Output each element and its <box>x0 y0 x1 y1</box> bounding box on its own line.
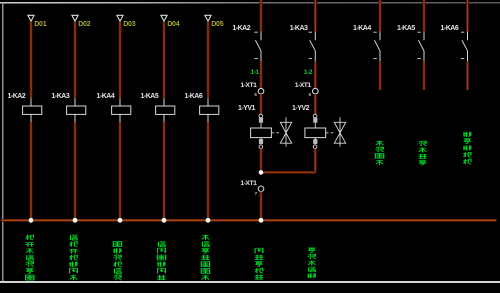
terminal label 1-XT1 (upper) <box>240 82 257 89</box>
terminal label 1-XT1 (branch2) <box>295 82 312 89</box>
green label feedback 2 <box>418 141 426 165</box>
border frame bottom line <box>0 281 500 283</box>
green label under coil 4 <box>157 242 165 280</box>
wire to bus from XT1:7 <box>260 192 263 220</box>
label coil 1-KA3 <box>52 93 70 100</box>
svg-text:1-KA4: 1-KA4 <box>353 25 371 32</box>
junction dot at bus x=31 <box>29 218 34 223</box>
node label 1-1 <box>250 69 259 76</box>
pin number 5 <box>254 92 257 97</box>
wire below YV1 <box>260 149 263 173</box>
green label feedback 1 <box>375 141 383 165</box>
wire D02 vertical upper <box>74 22 77 99</box>
border frame top line <box>0 2 500 4</box>
label D01 <box>34 21 47 28</box>
wire below contact 1-KA5 <box>423 61 426 90</box>
dashed actuator link YV1 <box>272 132 281 134</box>
label contact 1-KA5 <box>397 25 415 32</box>
junction dot at bus x=164 <box>162 218 167 223</box>
svg-text:D03: D03 <box>123 21 136 28</box>
svg-text:D01: D01 <box>34 21 47 28</box>
contact 1-KA3 (NO) <box>309 32 316 62</box>
PLC output arrow D01 <box>28 15 34 21</box>
svg-text:5: 5 <box>254 92 257 97</box>
wire D03 vertical upper <box>119 22 122 99</box>
green label under coil 1 <box>26 235 34 280</box>
svg-text:D04: D04 <box>167 21 180 28</box>
terminal 1-XT1:7 <box>258 186 264 192</box>
wire D01 vertical lower <box>30 122 33 220</box>
PLC output arrow D04 <box>161 15 167 21</box>
valve symbol V1 <box>280 117 291 146</box>
border frame left line <box>2 2 4 282</box>
wire below YV2 <box>314 149 317 173</box>
green label feedback 3 <box>463 132 471 165</box>
wire D04 vertical upper <box>163 22 166 99</box>
label contact 1-KA3 <box>290 25 308 32</box>
label coil 1-KA2 <box>8 93 26 100</box>
label D05 <box>211 21 224 28</box>
label coil 1-KA5 <box>141 93 159 100</box>
svg-text:1-2: 1-2 <box>304 69 313 76</box>
wire D04 vertical lower <box>163 122 166 220</box>
wire YV2 return horizontal <box>261 171 315 174</box>
PLC output arrow D05 <box>205 15 211 21</box>
label solenoid 1-YV2 <box>292 105 310 112</box>
contact 1-KA2 (NO) <box>254 32 261 62</box>
PLC output arrow D02 <box>72 15 78 21</box>
relay coil 1-KA6 <box>200 99 219 123</box>
label D02 <box>78 21 91 28</box>
wire D02 vertical lower <box>74 122 77 220</box>
label contact 1-KA6 <box>441 25 459 32</box>
valve symbol V2 <box>334 117 345 146</box>
terminal 1-XT1:6 <box>313 88 319 94</box>
green label under coil 2 <box>69 235 77 280</box>
terminal 1-XT1:5 <box>258 88 264 94</box>
svg-text:1-XT1: 1-XT1 <box>240 82 257 89</box>
wire D05 vertical upper <box>207 22 210 99</box>
bus wire horizontal <box>1 219 497 222</box>
svg-text:1-KA2: 1-KA2 <box>232 25 250 32</box>
wire to contact 1-KA6 <box>466 0 469 32</box>
svg-text:1-YV2: 1-YV2 <box>292 105 310 112</box>
svg-text:1-KA4: 1-KA4 <box>97 93 115 100</box>
green label under YV branch <box>255 248 263 280</box>
label coil 1-KA6 <box>185 93 203 100</box>
svg-text:1-KA6: 1-KA6 <box>441 25 459 32</box>
green label under coil 3 <box>113 242 121 281</box>
wire below contact 1-KA2 <box>260 61 263 88</box>
wire D03 vertical lower <box>119 122 122 220</box>
svg-text:1-YV1: 1-YV1 <box>238 105 256 112</box>
svg-text:1-KA2: 1-KA2 <box>8 93 26 100</box>
svg-text:1-KA6: 1-KA6 <box>185 93 203 100</box>
wire D05 vertical lower <box>207 122 210 220</box>
solenoid coil 1-YV2 <box>305 114 326 148</box>
junction dot at bus x=208 <box>206 218 211 223</box>
green label under coil 5 <box>201 235 209 280</box>
contact 1-KA6 (NO) <box>461 32 468 62</box>
label contact 1-KA2 <box>232 25 250 32</box>
contact 1-KA4 (NO) <box>373 32 380 62</box>
wire to contact 1-KA2 <box>260 0 263 32</box>
relay coil 1-KA3 <box>67 99 86 123</box>
contact 1-KA5 (NO) <box>417 32 424 62</box>
green label under branch 2 <box>308 248 316 278</box>
wire to contact 1-KA5 <box>423 0 426 32</box>
relay coil 1-KA2 <box>23 99 42 123</box>
PLC output arrow D03 <box>117 15 123 21</box>
wire to contact 1-KA4 <box>379 0 382 32</box>
svg-text:1-1: 1-1 <box>250 69 259 76</box>
wire XT1 to YV1 <box>260 94 263 114</box>
junction dot YV return <box>259 170 264 175</box>
label D04 <box>167 21 180 28</box>
relay coil 1-KA5 <box>156 99 175 123</box>
relay coil 1-KA4 <box>112 99 131 123</box>
pin number 7 <box>255 191 258 196</box>
svg-text:1-KA5: 1-KA5 <box>141 93 159 100</box>
pin number 6 <box>309 92 312 97</box>
svg-text:6: 6 <box>309 92 312 97</box>
wire to contact 1-KA3 <box>314 0 317 32</box>
wire below contact 1-KA4 <box>379 61 382 90</box>
label contact 1-KA4 <box>353 25 371 32</box>
junction dot at bus x=120 <box>118 218 123 223</box>
wire below contact 1-KA3 <box>314 61 317 88</box>
label solenoid 1-YV1 <box>238 105 256 112</box>
label D03 <box>123 21 136 28</box>
svg-text:1-XT1: 1-XT1 <box>240 180 257 187</box>
svg-text:D02: D02 <box>78 21 91 28</box>
wire below contact 1-KA6 <box>466 61 469 90</box>
label coil 1-KA4 <box>97 93 115 100</box>
svg-text:7: 7 <box>255 191 258 196</box>
solenoid coil 1-YV1 <box>251 114 272 148</box>
node label 1-2 <box>304 69 313 76</box>
junction dot at bus x=75 <box>73 218 78 223</box>
junction dot at bus x=261 <box>259 218 264 223</box>
svg-text:1-XT1: 1-XT1 <box>295 82 312 89</box>
wire XT1 to YV2 <box>314 94 317 114</box>
svg-text:1-KA3: 1-KA3 <box>290 25 308 32</box>
terminal label 1-XT1 (lower) <box>240 180 257 187</box>
wire D01 vertical upper <box>30 22 33 99</box>
svg-text:1-KA3: 1-KA3 <box>52 93 70 100</box>
svg-text:D05: D05 <box>211 21 224 28</box>
svg-text:1-KA5: 1-KA5 <box>397 25 415 32</box>
dashed actuator link YV2 <box>326 132 335 134</box>
